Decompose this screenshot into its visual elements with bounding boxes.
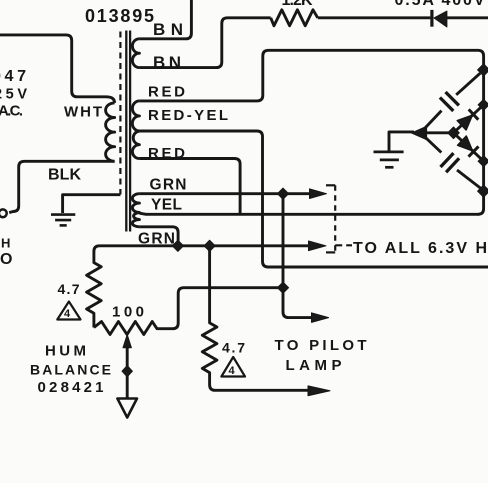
junction 4.7R/bus	[204, 240, 215, 251]
wire AC input top-left	[0, 35, 115, 103]
resistor 100 hum balance	[94, 288, 283, 335]
capacitor C upper: wire segments	[421, 111, 442, 133]
svg-text:GRN: GRN	[150, 177, 187, 194]
diode lower bar	[469, 146, 479, 156]
junction diode node	[448, 127, 460, 139]
resistor 4.7 left	[87, 251, 102, 328]
wire to diode	[318, 16, 431, 19]
svg-text:4: 4	[229, 365, 236, 377]
capacitor C lower plates	[441, 153, 454, 167]
transformer T1 primary winding (WHT/BLK)	[106, 103, 115, 161]
wire GRN2 lead down to bus	[139, 227, 178, 246]
wire wiper stem	[126, 345, 129, 398]
svg-text:WHT: WHT	[64, 104, 102, 121]
svg-text:RED: RED	[148, 84, 185, 101]
junction bridge B2	[478, 156, 488, 167]
svg-text:GRN: GRN	[138, 231, 175, 248]
junction GRN2/bus	[172, 240, 183, 251]
junction bridge T2	[478, 99, 488, 110]
arrow to pilot lamp upper	[312, 313, 329, 323]
ground symbol bridge	[374, 152, 404, 167]
arrow to heaters bottom	[309, 241, 327, 251]
diode upper bar	[469, 109, 479, 119]
arrow to heaters top	[310, 189, 327, 199]
transformer GRN filament winding	[132, 194, 139, 227]
wire GRN1 lead / 6.3V feed with arrow	[139, 192, 310, 195]
junction on wiper stem	[122, 366, 132, 377]
wire RED3 lead down to 6.3V line	[139, 159, 240, 215]
diode lower branch wire	[454, 133, 484, 161]
transformer core solid laminations	[125, 31, 127, 232]
diode upper branch wire	[454, 105, 484, 133]
svg-text:RED: RED	[148, 145, 185, 162]
junction node center (arrow blob)	[412, 126, 427, 139]
transformer RED HV winding	[132, 101, 139, 159]
ground symbol left	[51, 215, 75, 226]
svg-text:LAMP: LAMP	[286, 357, 342, 374]
wire shield to ground	[63, 195, 121, 213]
junction bridge B1	[478, 185, 488, 197]
svg-text:H: H	[1, 235, 10, 250]
wire YEL lead / 6.3V bus to bridge bottom	[139, 213, 479, 214]
wire diode to right edge	[447, 16, 488, 19]
capacitor C lower: wire segments	[421, 133, 442, 153]
safety triangle symbol left (4)	[57, 302, 80, 320]
bridge ground wire	[389, 132, 414, 151]
svg-text:BALANCE: BALANCE	[30, 361, 111, 377]
wire RED-YEL center tap down and right to edge	[139, 131, 488, 267]
svg-text:1.2K: 1.2K	[282, 0, 313, 9]
diode upper triangle	[457, 115, 472, 130]
wire center to diode node	[420, 131, 454, 134]
svg-text:947: 947	[0, 68, 26, 85]
safety triangle symbol right (4)	[221, 357, 245, 377]
capacitor C upper plates	[440, 98, 453, 111]
svg-text:A.C.: A.C.	[0, 103, 23, 120]
wire BLK lead to terminal	[9, 161, 114, 212]
wire BN1 lead to top edge	[139, 0, 191, 39]
diode CR (0.5A 400V) cathode bar	[430, 10, 433, 27]
wire BN2 lead up to fuse resistor line	[139, 18, 270, 68]
svg-text:4: 4	[64, 308, 71, 320]
terminal circle	[0, 209, 7, 217]
junction pilot branch / hum network	[277, 282, 288, 293]
svg-text:YEL: YEL	[151, 197, 182, 214]
svg-text:O: O	[0, 251, 12, 268]
wire GRN bottom bus with arrow	[94, 246, 310, 252]
floating common triangle symbol	[117, 399, 137, 418]
junction bridge T1	[478, 64, 488, 76]
resistor 4.7 right	[202, 246, 309, 390]
junction GRN1 line / pilot branch	[277, 188, 288, 199]
dashed connector bracket 6.3V heaters	[326, 185, 352, 252]
svg-text:HUM: HUM	[45, 342, 86, 359]
wire RED1 lead to bridge top	[139, 50, 483, 214]
resistor 1.2K	[271, 10, 318, 26]
transformer BN winding (top secondary)	[132, 39, 139, 68]
wire pilot branch vertical	[283, 194, 312, 318]
arrow to pilot lamp lower	[308, 386, 330, 396]
diode CR triangle	[434, 11, 447, 27]
svg-text:BLK: BLK	[48, 167, 81, 184]
potentiometer wiper arrow	[123, 335, 131, 348]
diode lower triangle	[458, 136, 473, 151]
transformer electrostatic shield (dashed)	[119, 32, 121, 195]
svg-text:100: 100	[112, 304, 144, 321]
svg-text:4.7: 4.7	[58, 281, 80, 297]
svg-text:4.7: 4.7	[222, 339, 245, 355]
